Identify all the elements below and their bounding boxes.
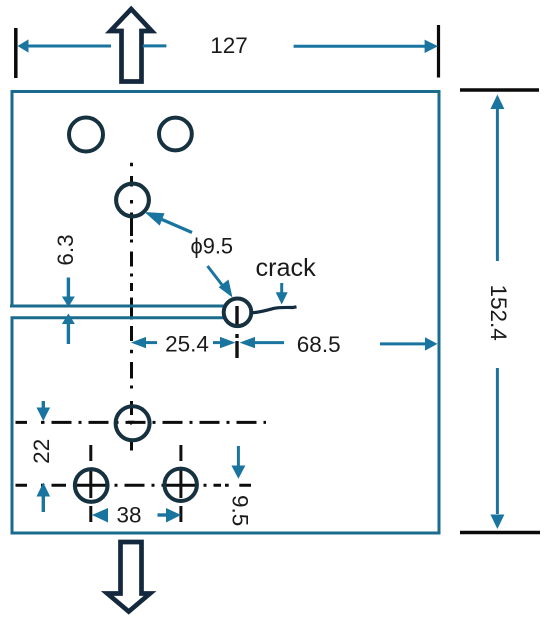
- hole phi9.5 upper center: [116, 184, 149, 217]
- dim 9.5: arrow (down): [237, 446, 240, 466]
- svg-text:22: 22: [29, 439, 54, 464]
- dim 127: left extension tick: [14, 28, 18, 78]
- top-left hole: [69, 118, 103, 152]
- dim 127: line segment B: [143, 44, 167, 47]
- dim 152.4: up arrowhead: [490, 95, 504, 110]
- vertical dashed line bottom-left hole x=90.8: [89, 445, 92, 528]
- plate outline with edge slot: [10, 92, 439, 534]
- bottom-right hole: [165, 469, 197, 501]
- dim 25.4: right arrowhead at crack hole line: [213, 341, 222, 344]
- load arrow down (block): [107, 542, 150, 612]
- horizontal centerline (dash-dot) upper bottom row y=423.3: [16, 421, 267, 424]
- dim 25.4: left arrowhead at centerline: [131, 337, 146, 348]
- vertical centerline (dash-dot) through top hole column x=131.5: [130, 163, 133, 451]
- dim 127: right arrowhead: [425, 40, 438, 53]
- label phi9.5 leader to crack hole: [208, 266, 227, 290]
- svg-text:9.5: 9.5: [227, 495, 252, 526]
- dim 127: line segment A: [27, 45, 111, 48]
- dim 152.4: top extension tick: [460, 88, 539, 92]
- crack line to the right of hole: [252, 307, 297, 313]
- svg-text:6.3: 6.3: [53, 234, 78, 265]
- label phi9.5 leader to upper hole: [162, 220, 192, 233]
- svg-text:68.5: 68.5: [297, 332, 341, 357]
- dim 127: left arrowhead: [18, 39, 29, 52]
- svg-text:crack: crack: [256, 254, 317, 282]
- dim 68.5: right line segment: [380, 342, 427, 345]
- dim 127: line segment C: [294, 45, 426, 48]
- dim 68.5: right arrowhead: [425, 337, 437, 350]
- bottom-left hole: [75, 469, 108, 502]
- dim 68.5: left arrowhead: [240, 337, 256, 348]
- dim 6.3: upper arrow (down): [67, 278, 70, 299]
- svg-text:152.4: 152.4: [486, 284, 511, 340]
- dim 152.4: line lower segment: [496, 368, 499, 514]
- dim 6.3: lower arrow (up): [62, 314, 75, 325]
- dim 152.4: down arrowhead: [490, 515, 504, 530]
- horizontal centerline (dash-dot) lower bottom row y=485: [16, 484, 252, 487]
- dim 152.4: bottom extension tick: [460, 531, 540, 535]
- svg-text:38: 38: [116, 503, 141, 528]
- vertical dashed line bottom-right hole x=180.9: [179, 445, 182, 528]
- dim 127: right extension tick: [437, 25, 440, 78]
- load arrow up (block): [110, 9, 151, 82]
- dim 22: lower arrow (up): [37, 483, 51, 497]
- crack hole: [224, 299, 252, 327]
- vertical dashed line at crack hole x=237: [235, 306, 238, 358]
- svg-text:127: 127: [210, 33, 248, 58]
- svg-text:ϕ9.5: ϕ9.5: [191, 234, 234, 259]
- dim 38: left arrowhead: [92, 508, 108, 523]
- dim 152.4: line upper segment: [496, 109, 499, 261]
- label crack leader arrow: [280, 283, 283, 294]
- top-right hole: [159, 118, 192, 151]
- svg-text:25.4: 25.4: [165, 332, 209, 357]
- dim 38: right arrow: [158, 513, 169, 516]
- dim 22: upper arrow (down): [42, 401, 45, 409]
- mid-bottom hole: [116, 406, 150, 440]
